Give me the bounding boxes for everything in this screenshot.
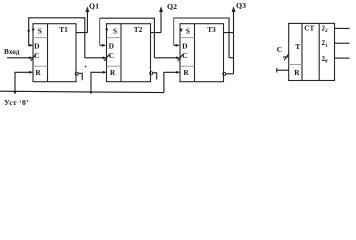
U2 C dynamic input slash (104, 54, 109, 61)
svg-text:CT: CT (304, 24, 314, 32)
U2 C arrowhead (103, 56, 107, 59)
svg-text:S: S (113, 27, 117, 36)
U4 R input end tick (276, 68, 278, 73)
wire Q2 arrow vertical (160, 9, 162, 33)
svg-text:T1: T1 (59, 25, 68, 34)
U1 inverse output circle (75, 72, 78, 75)
U1 C dynamic input slash (31, 54, 36, 61)
U4 C dynamic input slash (284, 54, 289, 61)
U3 S input arrow (180, 29, 183, 33)
wire U2 inverse output stub (153, 73, 157, 80)
svg-text:R: R (294, 68, 300, 77)
wire Q1 arrow vertical (86, 9, 88, 33)
junction U2 R riser (90, 91, 92, 93)
wire clock to U2 C (85, 57, 106, 59)
svg-text:T3: T3 (207, 25, 216, 34)
U3 inverse output circle (223, 72, 226, 75)
svg-text:C: C (277, 45, 282, 54)
counter U4 box (289, 23, 335, 80)
stray dot (85, 66, 87, 68)
U2 S input arrow (105, 29, 108, 33)
input wire (7, 57, 32, 59)
U1 pin section separators (33, 38, 48, 66)
U3 pin section separators (180, 38, 195, 66)
U1 D input arrowhead (29, 44, 33, 47)
wire clock to U3 C (154, 57, 178, 59)
U2 D input arrowhead (102, 44, 106, 47)
U1 S input arrow (32, 29, 35, 33)
svg-text:T2: T2 (134, 25, 143, 34)
wire U3 feedback loop (Q to D) (174, 18, 229, 58)
wire U3 inverse output to Q3 line (226, 73, 234, 75)
U2 R arrowhead (103, 71, 107, 74)
wire U1 inverse output stub (78, 73, 82, 80)
svg-text:D: D (109, 41, 114, 50)
wire U4 output 2^1 (335, 42, 350, 44)
Q1 arrowhead (86, 6, 90, 12)
wire Q1 output horizontal (76, 32, 87, 34)
U3 C arrowhead (176, 56, 180, 59)
svg-text:C: C (182, 51, 187, 60)
wire U3 clock stub to Q3 line (229, 57, 234, 59)
U3 R arrowhead (176, 71, 180, 74)
svg-text:R: R (35, 68, 41, 77)
wire U4 R input stub (277, 69, 289, 71)
wire Q3 output horizontal (224, 32, 234, 34)
wire U4 C input stub (283, 56, 289, 58)
U1 R arrowhead (29, 71, 33, 74)
wire Q3 arrow vertical (233, 9, 235, 74)
svg-text:C: C (109, 51, 114, 60)
U1 feedback direction arrow (27, 30, 30, 33)
svg-text:D: D (182, 41, 187, 50)
svg-text:D: D (34, 41, 39, 50)
wire U4 output 2^2 (335, 27, 350, 29)
wire U1 R input (15, 72, 32, 92)
svg-text:Q1: Q1 (89, 2, 99, 11)
wire U2 feedback loop (Q to D) (100, 18, 155, 58)
U2 inverse output circle (150, 72, 153, 75)
wire U3 R input (164, 72, 179, 92)
flip-flop U1 box (33, 24, 76, 82)
flip-flop U3 box (180, 24, 224, 82)
Q2 arrowhead (159, 6, 163, 12)
Q3 arrowhead (232, 6, 236, 12)
U3 C dynamic input slash (178, 54, 183, 61)
U2 pin section separators (107, 38, 122, 66)
flip-flop U2 box (107, 24, 151, 82)
reset wire (0, 91, 164, 92)
svg-text:Уст ‘0’: Уст ‘0’ (4, 98, 29, 107)
svg-text:S: S (186, 27, 190, 36)
wire Q2 output horizontal (151, 32, 162, 34)
wire U1 feedback loop (Q to D) (29, 18, 85, 58)
svg-text:Q2: Q2 (167, 2, 177, 11)
U3 D input arrowhead (176, 44, 180, 47)
svg-text:T: T (295, 42, 300, 51)
wire U4 output 2^0 (335, 57, 350, 59)
svg-text:S: S (38, 27, 42, 36)
svg-text:Q3: Q3 (236, 1, 246, 10)
U1 C arrowhead (29, 56, 33, 59)
wire U2 R input (91, 72, 105, 92)
svg-text:Вход: Вход (4, 48, 20, 56)
U4 left column separator (289, 63, 302, 65)
junction U1 R riser (14, 91, 16, 93)
svg-text:R: R (110, 68, 116, 77)
svg-text:R: R (183, 68, 189, 77)
